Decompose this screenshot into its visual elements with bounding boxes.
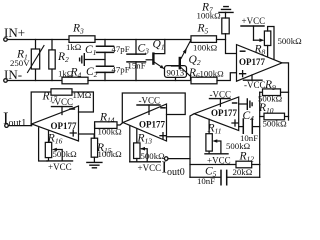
- wire U4 +in: [79, 134, 95, 138]
- resistor R5: [191, 36, 217, 43]
- svg-text:-VCC: -VCC: [210, 90, 232, 100]
- node Iout0 terminal: [164, 157, 168, 161]
- op-amp U2: [123, 104, 167, 141]
- svg-text:100kΩ: 100kΩ: [98, 127, 123, 137]
- svg-text:100kΩ: 100kΩ: [200, 69, 225, 79]
- wire R5 right to R7 node: [217, 39, 226, 41]
- svg-text:250V: 250V: [10, 58, 30, 68]
- svg-text:500kΩ: 500kΩ: [278, 36, 303, 46]
- svg-text:IN+: IN+: [4, 25, 25, 40]
- wire Iout0: [168, 158, 190, 160]
- label box 9013: [165, 66, 187, 78]
- svg-text:500kΩ: 500kΩ: [263, 119, 288, 129]
- ground (U3 -in, pointing right): [239, 103, 247, 105]
- wire U4 V+ stem: [39, 128, 48, 161]
- potentiometer R16: [48, 131, 50, 143]
- node IN- terminal: [4, 79, 8, 83]
- resistor R15: [91, 138, 97, 157]
- wire U1 output: [282, 63, 289, 120]
- capacitor C3: [135, 40, 137, 55]
- potentiometer R13: [136, 129, 138, 143]
- svg-text:500kΩ: 500kΩ: [53, 149, 78, 159]
- op-amp U3: [194, 97, 239, 131]
- svg-text:OP177: OP177: [139, 120, 165, 130]
- wire U2 +in: [167, 136, 191, 138]
- power +VCC (U4): [47, 160, 73, 162]
- capacitor C4: [239, 126, 243, 128]
- svg-text:1kΩ: 1kΩ: [66, 42, 82, 52]
- ground (below R15, pointing down): [93, 157, 95, 162]
- wire R6 to U1 +in: [217, 73, 237, 81]
- power +VCC (U3): [205, 153, 228, 155]
- svg-text:+VCC: +VCC: [207, 156, 231, 166]
- resistor R7: [222, 18, 229, 34]
- power -VCC (U4): [52, 106, 73, 108]
- capacitor C2: [97, 66, 114, 72]
- node IN+ terminal: [4, 38, 8, 42]
- svg-text:+VCC: +VCC: [242, 16, 266, 26]
- wire U2 feedback loop: [122, 93, 185, 123]
- ground (above R7, pointing up): [219, 7, 233, 13]
- wire IN+ line: [7, 39, 69, 41]
- svg-text:100kΩ: 100kΩ: [98, 149, 123, 159]
- svg-text:-VCC: -VCC: [139, 96, 161, 106]
- transistor Q2: [172, 65, 179, 67]
- svg-text:IN-: IN-: [4, 67, 22, 82]
- resistor R4: [62, 77, 88, 84]
- power -VCC (U1): [251, 75, 253, 80]
- resistor R12: [190, 164, 260, 166]
- ground (C1/C2 midpoint, pointing left): [84, 59, 105, 61]
- svg-text:-VCC: -VCC: [244, 80, 266, 90]
- svg-text:500kΩ: 500kΩ: [226, 141, 251, 151]
- wire U4 output: [8, 124, 31, 126]
- svg-text:OP177: OP177: [211, 108, 237, 118]
- svg-text:9013: 9013: [167, 68, 185, 78]
- node Iout1 terminal: [5, 124, 9, 128]
- svg-text:15nF: 15nF: [128, 61, 146, 71]
- resistor R2: [51, 40, 53, 81]
- resistor R17: [51, 89, 72, 95]
- potentiometer R11: [208, 119, 210, 133]
- wire N1 bus: [259, 92, 261, 177]
- svg-text:47pF: 47pF: [112, 44, 130, 54]
- op-amp U4: [32, 106, 79, 141]
- transistor Q1: [146, 59, 152, 61]
- svg-text:+VCC: +VCC: [138, 163, 162, 173]
- svg-text:OP177: OP177: [239, 57, 265, 67]
- power -VCC (U3): [210, 98, 231, 100]
- svg-text:1MΩ: 1MΩ: [73, 90, 92, 100]
- svg-text:+VCC: +VCC: [48, 162, 72, 172]
- resistor R10: [260, 116, 289, 118]
- svg-text:10nF: 10nF: [197, 176, 215, 186]
- wire R3 to R5: [95, 39, 191, 41]
- resistor R6: [191, 77, 217, 84]
- power -VCC (U2): [137, 104, 160, 106]
- power +VCC (U2): [129, 127, 131, 162]
- wire U4 feedback: [31, 92, 51, 126]
- potentiometer R8: [254, 39, 262, 41]
- svg-text:OP177: OP177: [51, 121, 77, 131]
- op-amp U1: [237, 45, 283, 82]
- capacitor C1: [104, 40, 106, 47]
- resistor R3: [69, 36, 95, 43]
- svg-text:20kΩ: 20kΩ: [233, 167, 253, 177]
- capacitor C5: [190, 176, 221, 178]
- wire R14 left node: [94, 125, 96, 138]
- wire IN- line: [7, 80, 62, 82]
- power +VCC (top right): [241, 25, 264, 27]
- resistor R9: [260, 91, 289, 93]
- resistor R14: [117, 123, 123, 126]
- wire U3 output bus: [190, 114, 194, 178]
- resistor R1 (varistor): [35, 40, 37, 81]
- wire R7 bottom to U1 -in: [226, 34, 237, 54]
- wire R4 to R6: [88, 80, 191, 82]
- svg-text:100kΩ: 100kΩ: [197, 11, 222, 21]
- svg-text:100kΩ: 100kΩ: [193, 43, 218, 53]
